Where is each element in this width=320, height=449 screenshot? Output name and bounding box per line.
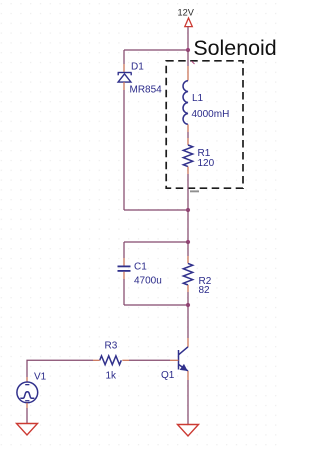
wire D1 anode down <box>123 90 125 210</box>
wire power to node A <box>187 27 189 50</box>
pin stub D1 anode <box>123 82 125 90</box>
junction node D <box>186 303 190 307</box>
wire node B to node C <box>187 210 189 242</box>
svg-text:R3: R3 <box>105 341 118 352</box>
pin stub R2 top <box>187 256 189 263</box>
svg-text:12V: 12V <box>178 7 195 17</box>
pin stub Q1 base <box>170 359 179 361</box>
pin stub D1 cathode <box>123 64 125 72</box>
svg-text:D1: D1 <box>131 62 144 73</box>
source V1 <box>17 382 38 403</box>
svg-text:C1: C1 <box>134 262 147 273</box>
wire base to R3 <box>129 359 170 361</box>
svg-text:82: 82 <box>199 285 211 296</box>
svg-text:1k: 1k <box>106 371 118 382</box>
wire C1 top <box>123 242 125 258</box>
resistor R3 <box>100 356 122 365</box>
pin stub Q1 emitter <box>187 371 189 380</box>
svg-text:MR854: MR854 <box>130 85 163 96</box>
pin stub V1 minus <box>26 403 28 408</box>
pin stub C1 bottom <box>123 272 125 279</box>
ground V1 <box>17 424 38 436</box>
pin stub R3 right <box>122 359 129 361</box>
pin stub R1 bottom <box>187 167 189 174</box>
pin stub C1 top <box>123 258 125 266</box>
capacitor C1 <box>118 266 131 271</box>
pin stub Q1 collector <box>187 338 189 347</box>
Q1 emitter arrow <box>181 365 187 371</box>
V1 plus mark <box>25 384 29 385</box>
junction node B <box>186 208 190 212</box>
wire node C to R2 <box>187 242 189 256</box>
wire D1 cathode up <box>123 50 125 64</box>
power symbol 12V arrow <box>185 18 193 27</box>
wire C1 bottom <box>123 279 125 305</box>
junction node C <box>186 240 190 244</box>
diode D1 <box>118 73 132 83</box>
wire node C to C1 branch <box>124 241 188 243</box>
ground Q1 emitter <box>178 425 199 437</box>
pin stub R1 top <box>187 138 189 145</box>
svg-text:4000mH: 4000mH <box>192 109 230 120</box>
wire node A to L1 <box>187 50 189 66</box>
wire R3 to V1 <box>27 360 93 377</box>
wire V1 to ground <box>26 408 28 424</box>
wire node D to Q1 collector <box>187 305 189 338</box>
junction node A <box>186 48 190 52</box>
wire node A horizontal to D1 branch <box>124 49 188 51</box>
pin stub L1 top <box>187 66 189 81</box>
pin stub L1 bottom <box>187 124 189 132</box>
solenoid dashed box <box>166 61 243 188</box>
svg-text:Q1: Q1 <box>161 370 175 381</box>
svg-text:L1: L1 <box>192 93 204 104</box>
inductor L1 <box>183 81 188 125</box>
pin number mark top <box>192 61 195 64</box>
resistor R2 <box>183 263 192 285</box>
pin stub R3 left <box>93 359 100 361</box>
wire L1 to R1 <box>187 132 189 138</box>
V1 minus mark <box>25 400 29 401</box>
pin number mark bottom <box>190 190 199 192</box>
wire C1 branch to node D <box>124 304 188 306</box>
pin stub V1 plus <box>26 377 28 382</box>
svg-text:Solenoid: Solenoid <box>193 36 276 60</box>
wire D1 branch to node B <box>124 209 188 211</box>
svg-text:4700u: 4700u <box>134 276 162 287</box>
svg-text:120: 120 <box>198 158 215 169</box>
pin stub R2 bottom <box>187 285 189 292</box>
wire Q1 emitter to ground <box>187 380 189 425</box>
resistor R1 <box>183 145 192 167</box>
wire R2 to node D <box>187 292 189 305</box>
svg-text:V1: V1 <box>34 372 47 383</box>
transistor Q1 <box>179 347 189 371</box>
wire R1 to node B <box>187 174 189 210</box>
